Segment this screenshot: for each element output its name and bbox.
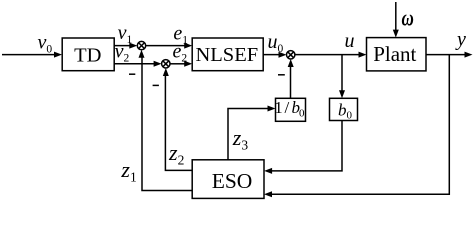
svg-text:ω: ω (402, 6, 414, 31)
svg-text:NLSEF: NLSEF (195, 44, 258, 66)
wire e2: junction 2 to NLSEF (170, 61, 192, 67)
wire v0 input (2, 52, 62, 58)
wire 1/b0 output up to summing junction 3 (288, 59, 294, 98)
wire v2: TD to summing junction 2 (114, 61, 161, 67)
minus sign at junction 3 (278, 74, 285, 76)
summing junction S1 (137, 41, 145, 49)
block TD (62, 38, 114, 71)
wire z1: ESO left to summing junction 1 (139, 50, 193, 191)
wire u0: NLSEF to summing junction 3 (263, 52, 286, 58)
block ESO (192, 160, 264, 199)
block b0 (330, 98, 358, 121)
wire y feedback to ESO (264, 55, 449, 198)
summing junction S3 (287, 51, 295, 59)
wire z2: ESO left to summing junction 2 (163, 68, 192, 170)
block NLSEF (192, 38, 263, 71)
svg-text:u0: u0 (268, 31, 284, 55)
wire e1: junction 1 to NLSEF (146, 43, 193, 49)
minus sign at junction 1 (129, 73, 135, 75)
wire u branch down to b0 (339, 55, 345, 99)
summing junction S2 (162, 60, 170, 68)
block 1/b0 (274, 98, 305, 121)
svg-text:u: u (345, 30, 355, 52)
svg-text:v0: v0 (38, 31, 53, 55)
wire y output (426, 52, 473, 58)
svg-text:Plant: Plant (373, 42, 416, 66)
svg-text:z1: z1 (120, 157, 136, 185)
svg-text:y: y (455, 29, 466, 51)
wire b0 output to ESO (264, 121, 342, 174)
wire u: junction 3 to Plant (295, 52, 367, 58)
wire v1: TD to summing junction 1 (114, 43, 137, 49)
svg-text:z3: z3 (232, 125, 249, 153)
minus sign at junction 2 (153, 84, 159, 86)
svg-text:TD: TD (74, 44, 101, 66)
svg-text:ESO: ESO (212, 169, 253, 193)
wire z3: ESO top to 1/b0 (228, 106, 276, 160)
svg-text:z2: z2 (168, 140, 184, 168)
block Plant (367, 38, 427, 71)
wire omega disturbance into Plant (393, 2, 399, 38)
